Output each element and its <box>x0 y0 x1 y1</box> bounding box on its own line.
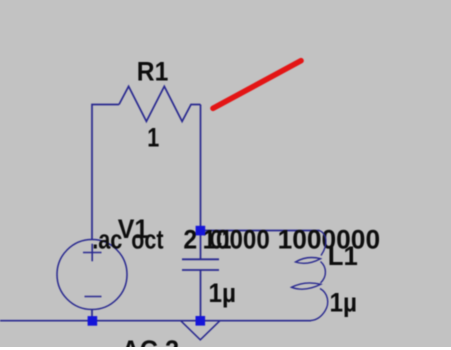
ground symbol <box>181 321 220 340</box>
voltage source V1 circle <box>57 240 127 310</box>
capacitor C1 top lead <box>200 231 202 260</box>
svg-text:L1: L1 <box>328 241 358 271</box>
svg-text:1µ: 1µ <box>330 288 358 318</box>
inductor L1 loop eye 1 <box>296 258 321 264</box>
wire: resistor right lead down to mid node <box>200 105 202 231</box>
V1 plus sign <box>83 244 102 262</box>
capacitor C1 top plate <box>182 258 219 260</box>
white strip at bottom edge <box>0 347 451 350</box>
wire: bottom ground rail <box>0 320 311 322</box>
capacitor C1 bottom lead <box>200 270 202 321</box>
inductor L1 arcs: entry bump, between-bump, bottom hook <box>320 231 326 256</box>
svg-text:.ac: .ac <box>92 225 122 255</box>
node junction square (mid node) <box>196 226 206 236</box>
V1 minus sign <box>85 296 102 298</box>
wire: V1 bottom lead to ground rail <box>91 310 93 321</box>
svg-text:R1: R1 <box>137 57 169 87</box>
capacitor C1 bottom plate <box>182 269 219 271</box>
node junction square (ground node) <box>196 316 206 326</box>
wire: mid node across to inductor top <box>201 230 320 232</box>
wire: V1 top up and over to resistor left lead <box>92 105 119 240</box>
inductor L1 loop eye 2 <box>292 283 321 289</box>
svg-text:1: 1 <box>147 123 159 153</box>
svg-text:C1: C1 <box>210 225 231 255</box>
svg-text:oct: oct <box>131 225 163 255</box>
node junction square (V1 bottom) <box>88 316 98 326</box>
red annotation line <box>213 61 301 109</box>
svg-text:2: 2 <box>183 225 197 255</box>
spice directive .ac oct 2 10000 1000000 <box>92 225 380 255</box>
resistor R1 zigzag body <box>119 86 201 121</box>
svg-text:1µ: 1µ <box>209 278 237 308</box>
